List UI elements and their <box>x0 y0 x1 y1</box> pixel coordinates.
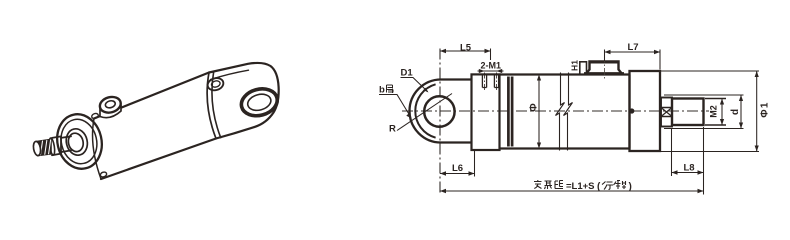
port base thick line <box>584 72 624 75</box>
rod thread M2 section <box>672 99 704 126</box>
2-M1 tapped hole left <box>482 76 486 88</box>
clevis eye hole outer <box>238 85 280 120</box>
L7 arrow left <box>605 50 611 54</box>
svg-text:L5: L5 <box>460 42 472 53</box>
L5 extension line <box>490 49 492 61</box>
gland ring 3 <box>64 127 90 158</box>
piston rod <box>61 136 71 152</box>
phi1 arrow up <box>755 71 759 77</box>
M2 arrow down <box>720 119 724 125</box>
rear clevis eye outer stadium <box>410 80 472 143</box>
bore arrow down <box>537 143 541 149</box>
install arrow left <box>440 189 446 193</box>
phi1 dimension line <box>756 71 758 152</box>
svg-text:M2: M2 <box>709 105 719 118</box>
d dimension line <box>740 95 742 129</box>
L5 dimension line <box>440 50 491 52</box>
port boss hole <box>105 100 116 109</box>
L8 left extension <box>671 129 673 177</box>
d arrow up <box>739 95 743 101</box>
L6 dimension line <box>440 173 475 175</box>
front head block <box>630 71 661 151</box>
clevis eye hole inner <box>246 92 273 113</box>
L8 arrow right <box>698 170 704 174</box>
L7 arrow right <box>654 50 660 54</box>
break symbol line 2 <box>564 73 573 151</box>
eye vertical centerline <box>439 49 441 194</box>
tube body bottom edge <box>101 139 216 180</box>
flats X marks <box>661 108 672 117</box>
phi1 arrow down <box>755 146 759 152</box>
rod boss ring <box>67 132 85 153</box>
cap block outline <box>209 63 279 139</box>
M2 arrow up <box>720 99 724 105</box>
port boss body <box>100 105 121 118</box>
svg-text:d: d <box>730 109 741 115</box>
L7 dimension line <box>605 51 661 53</box>
L8 right extension <box>703 127 705 195</box>
svg-text:): ) <box>629 182 632 193</box>
flats divider lines <box>661 108 672 117</box>
port top thick line <box>589 61 619 64</box>
port boss top ring <box>98 95 122 115</box>
rear cap <box>472 74 500 150</box>
L7 right extension <box>659 50 661 70</box>
cap block seam arc <box>207 73 216 139</box>
eye inner arc (boss) <box>415 84 435 137</box>
hole left centerline <box>484 73 486 91</box>
wrench flats section <box>661 98 672 127</box>
CJK glyph 扁 <box>387 85 394 93</box>
pitch arrow right <box>497 69 503 73</box>
eye pin hole <box>424 96 454 126</box>
svg-text:=L1+S: =L1+S <box>566 181 595 192</box>
L5 arrow left <box>440 49 446 53</box>
M2 extension lines <box>705 99 726 126</box>
phi1 extension lines <box>661 71 759 152</box>
2-M1 tapped hole right <box>494 76 498 88</box>
cap block seam arc 2 <box>212 72 221 138</box>
pin hole small ring outer <box>206 76 225 92</box>
D1 leader <box>401 78 428 92</box>
rod end face <box>32 141 41 156</box>
svg-text:L6: L6 <box>452 163 463 174</box>
bore arrow up <box>537 75 541 81</box>
svg-text:Φ: Φ <box>527 103 539 112</box>
gland outer ring <box>52 110 107 173</box>
svg-text:2-M1: 2-M1 <box>481 60 502 70</box>
gland nub bottom <box>100 171 108 178</box>
M2 dimension line <box>721 99 723 126</box>
break symbol line 1 <box>556 73 565 151</box>
H1 dimension box <box>580 62 587 75</box>
b-flat arrowhead <box>406 113 411 118</box>
thread hatch <box>41 140 51 155</box>
bleed dot on head <box>629 108 634 113</box>
tube weld band line 2 <box>511 77 514 147</box>
rod nut band <box>52 136 61 155</box>
d extension lines <box>664 95 744 129</box>
port centerline <box>604 56 606 80</box>
main horizontal centerline <box>402 110 709 112</box>
L6 arrow left <box>440 171 446 175</box>
gland nub top <box>91 113 99 120</box>
b-flat leader <box>379 95 411 118</box>
tube weld band line 1 <box>507 77 510 147</box>
svg-text:H1: H1 <box>570 60 580 71</box>
gland seam arc <box>93 119 101 180</box>
oil port boss H1 <box>586 62 623 75</box>
L7 left extension <box>604 50 606 62</box>
L8 dimension line <box>672 172 704 174</box>
tube body top edge <box>94 73 209 119</box>
pitch arrow left <box>479 69 485 73</box>
pin hole small ring inner <box>211 80 221 88</box>
svg-text:R: R <box>389 124 396 135</box>
nut cap ellipse <box>48 138 55 156</box>
install distance dimension line <box>440 190 704 192</box>
L6 extension line <box>474 151 476 177</box>
bore dimension line <box>538 76 540 147</box>
hole right centerline <box>496 73 498 91</box>
gland ring 2 <box>57 116 101 168</box>
svg-text:L8: L8 <box>684 162 695 173</box>
L6 arrow right <box>469 171 475 175</box>
svg-text:L7: L7 <box>628 42 639 53</box>
install distance label: CJK 安装距 <box>534 180 563 189</box>
cylinder tube outline <box>500 75 630 149</box>
cap block top crease <box>211 70 249 79</box>
svg-text:D1: D1 <box>401 68 414 79</box>
svg-text:b: b <box>379 85 385 96</box>
d arrow down <box>739 123 743 129</box>
threaded rod tip <box>38 139 52 155</box>
2-M1 pitch dimension line <box>478 70 504 72</box>
L5 arrow right <box>485 49 491 53</box>
install arrow right <box>698 189 704 193</box>
R leader line <box>397 94 452 131</box>
D1 arrowhead <box>423 88 428 93</box>
svg-text:Φ1: Φ1 <box>760 101 771 117</box>
L8 arrow left <box>672 170 678 174</box>
